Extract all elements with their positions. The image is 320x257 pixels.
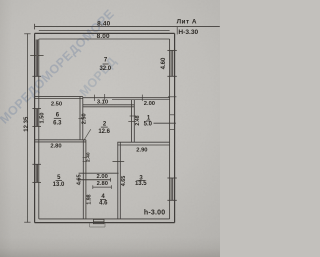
- inner wall bottom: [39, 218, 170, 220]
- tick dim left of 3.10: [94, 95, 96, 101]
- tick V3 door: [113, 161, 125, 163]
- door leaf room 2: [84, 129, 91, 140]
- svg-text:h-3.00: h-3.00: [144, 210, 165, 217]
- svg-text:4.65: 4.65: [121, 176, 127, 187]
- window tick W1|W2: [30, 55, 43, 57]
- svg-text:13.5: 13.5: [135, 181, 147, 187]
- paper grain: [0, 0, 220, 257]
- svg-text:8.40: 8.40: [97, 20, 110, 27]
- svg-text:Н-3.30: Н-3.30: [178, 29, 198, 36]
- outer wall right: [174, 33, 176, 222]
- tick V2 upper: [130, 115, 137, 117]
- svg-text:12.35: 12.35: [24, 116, 30, 132]
- tick dim 12.35 bottom: [24, 221, 30, 223]
- window W6 right wall: [167, 178, 176, 200]
- wall V1 upper rooms 6|2: [80, 97, 83, 140]
- watermark second line: [77, 54, 120, 99]
- outer wall left: [34, 33, 36, 222]
- svg-text:3.10: 3.10: [97, 100, 108, 106]
- watermark МОРЕДОМ: [0, 7, 117, 127]
- tick right wall at dim line: [168, 96, 176, 98]
- tick V2 lower: [128, 121, 136, 123]
- svg-text:6.3: 6.3: [53, 120, 62, 126]
- window W2 left wall: [32, 56, 41, 76]
- tick room1 to right wall: [154, 122, 176, 124]
- tick V1 upper: [78, 118, 83, 120]
- right wall rung b: [170, 129, 175, 131]
- wall V2 rooms 2|1: [132, 100, 135, 143]
- tick dim 2.50|3.10: [104, 94, 106, 101]
- wall H2 left rooms 6|5: [35, 140, 86, 142]
- wall V1 lower rooms 5|4: [83, 140, 86, 219]
- inner wall top: [39, 38, 170, 40]
- svg-text:2.00: 2.00: [144, 101, 155, 107]
- svg-text:2.90: 2.90: [136, 148, 147, 154]
- outer wall bottom: [35, 222, 175, 224]
- svg-text:2.00: 2.00: [97, 174, 108, 180]
- entrance threshold: [93, 219, 104, 223]
- dim line 12.35 vertical left: [26, 33, 28, 222]
- svg-text:2.80: 2.80: [97, 181, 108, 187]
- entrance step: [90, 223, 105, 227]
- svg-text:2.50: 2.50: [51, 101, 62, 107]
- room 5 label: [53, 175, 65, 188]
- room 2 label: [98, 122, 110, 136]
- tick dim 3.10|2.00: [141, 95, 143, 101]
- svg-text:12.6: 12.6: [98, 129, 110, 135]
- tick below dim line at Н-3.30: [176, 27, 178, 35]
- dim line 2.00 room4: [79, 178, 111, 182]
- inner wall right: [169, 39, 171, 219]
- svg-text:Лит А: Лит А: [177, 18, 197, 25]
- svg-text:32.0: 32.0: [99, 66, 111, 72]
- wall V3 rooms 4|3: [118, 142, 121, 219]
- svg-text:2.50: 2.50: [82, 113, 88, 124]
- svg-text:4.65: 4.65: [77, 174, 83, 185]
- dim line 8.00: [39, 29, 170, 31]
- svg-text:1.50: 1.50: [40, 113, 46, 124]
- line H3 room4 top: [79, 172, 119, 174]
- outer wall top: [35, 32, 175, 34]
- tick left end dim 8.40: [34, 24, 36, 30]
- svg-text:4.60: 4.60: [161, 57, 167, 69]
- room 1 label: [144, 115, 153, 127]
- window W3 left wall: [32, 109, 41, 127]
- ticks V1 lower: [83, 157, 87, 159]
- svg-text:2.40: 2.40: [85, 152, 91, 162]
- right wall rung a: [170, 114, 175, 116]
- room1 top wall line b: [112, 99, 170, 101]
- window W4 left wall: [32, 164, 41, 182]
- svg-text:5.0: 5.0: [144, 121, 153, 127]
- window W1 left wall: [36, 40, 37, 56]
- room 4 label: [99, 194, 108, 206]
- room1 top wall / dim line: [83, 97, 170, 99]
- wall H2 right rooms 1|3: [117, 142, 169, 145]
- room 7 label: [99, 58, 111, 72]
- window W5 right wall: [167, 50, 176, 76]
- room6 top wall line b: [35, 98, 83, 100]
- room 3 label: [135, 175, 147, 187]
- inner wall left: [38, 39, 40, 219]
- room6 top wall line a: [35, 95, 83, 97]
- room 6 label: [53, 112, 62, 126]
- svg-text:4.6: 4.6: [99, 200, 108, 206]
- svg-text:1.98: 1.98: [87, 194, 93, 204]
- dim line 2.80 room4: [93, 185, 112, 189]
- svg-text:8.00: 8.00: [97, 33, 110, 40]
- dim line 8.40 top: [35, 26, 220, 28]
- svg-text:2.48: 2.48: [135, 115, 141, 125]
- svg-text:13.0: 13.0: [53, 182, 65, 188]
- tick dim 12.35 top: [24, 33, 30, 35]
- svg-text:2.80: 2.80: [50, 143, 61, 149]
- room2 top wall: [83, 105, 135, 107]
